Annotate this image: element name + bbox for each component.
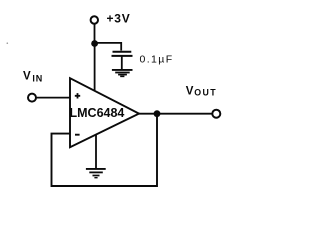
speckle dot scan artifact <box>7 42 9 44</box>
capacitor C1 top plate <box>113 51 132 53</box>
terminal VOUT <box>212 110 220 118</box>
terminal +3V <box>91 16 98 23</box>
op-amp minus input symbol <box>75 134 80 136</box>
ground (op-amp) <box>86 169 106 178</box>
op-amp plus input symbol <box>75 93 80 98</box>
wire +3V terminal to junction <box>94 24 96 44</box>
capacitor C1 bottom plate <box>112 55 133 57</box>
node junction dot supply <box>91 40 98 47</box>
ground (capacitor) <box>112 70 133 77</box>
wire capacitor to ground <box>121 57 123 70</box>
op-amp U1 LMC6484 triangle <box>70 78 139 147</box>
svg-text:LMC6484: LMC6484 <box>70 106 125 120</box>
svg-text:OUT: OUT <box>194 88 217 98</box>
wire feedback: inverting input, left, bottom, up to output node <box>52 116 158 186</box>
wire junction to op-amp V+ pin <box>94 44 96 93</box>
node output junction dot <box>154 110 161 117</box>
svg-text:V: V <box>23 70 31 82</box>
wire op-amp V- pin to ground <box>95 135 97 169</box>
svg-text:V: V <box>186 85 194 97</box>
wire VIN terminal to op-amp noninverting input <box>36 97 70 99</box>
svg-text:0.1µF: 0.1µF <box>140 54 174 66</box>
wire junction to capacitor <box>95 43 122 51</box>
svg-text:IN: IN <box>32 73 43 83</box>
terminal VIN input <box>28 94 36 102</box>
svg-text:+3V: +3V <box>107 12 131 26</box>
wire op-amp output to VOUT terminal <box>139 113 212 115</box>
